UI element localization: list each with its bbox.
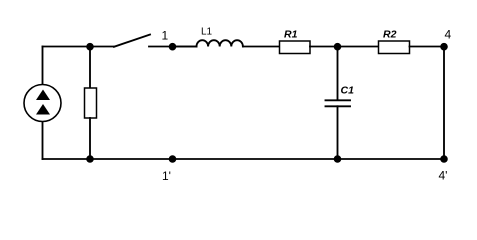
wire top rail left segment xyxy=(43,46,115,48)
svg-text:R2: R2 xyxy=(383,29,397,41)
wire inductor to R1 xyxy=(243,46,280,48)
wire R1 to node C xyxy=(310,46,379,48)
svg-text:C1: C1 xyxy=(341,85,355,97)
resistor R (vertical) body xyxy=(85,88,97,118)
wire R2 to node 4 xyxy=(410,46,445,48)
resistor R1 body xyxy=(280,41,311,54)
wire switch to node 1 xyxy=(149,46,197,48)
junction dot node C (R1/R2/C1) xyxy=(334,43,342,51)
wire node 4 down to node 4' xyxy=(443,47,445,160)
node 4 junction dot xyxy=(440,43,448,51)
current source J circle xyxy=(24,85,61,122)
switch S1 blade (open) xyxy=(114,35,150,47)
svg-text:4': 4' xyxy=(439,169,448,183)
wire capacitor to bottom rail xyxy=(337,106,339,159)
node 1' junction dot xyxy=(169,155,177,163)
capacitor C1 bottom plate xyxy=(326,105,351,107)
wire junction down to resistor R xyxy=(89,47,91,89)
wire left vertical lower xyxy=(42,122,44,160)
current source arrow lower xyxy=(36,104,50,115)
junction dot bottom capacitor xyxy=(334,155,342,163)
node 4' junction dot xyxy=(440,155,448,163)
node 1 junction dot xyxy=(169,43,177,51)
junction dot top left xyxy=(86,43,94,51)
capacitor C1 top plate xyxy=(326,99,351,101)
wire node 1 to inductor xyxy=(173,46,197,48)
wire resistor R to bottom rail xyxy=(89,118,91,159)
wire left vertical upper xyxy=(42,47,44,85)
inductor L1 xyxy=(197,40,243,46)
wire bottom rail xyxy=(43,158,445,160)
svg-text:1': 1' xyxy=(162,169,171,183)
svg-text:1: 1 xyxy=(162,29,169,43)
wire node C down to capacitor xyxy=(337,47,339,101)
junction dot bottom resistor xyxy=(86,155,94,163)
svg-text:4: 4 xyxy=(445,28,452,42)
current source arrow upper xyxy=(36,90,50,101)
resistor R2 body xyxy=(379,41,410,54)
svg-text:L1: L1 xyxy=(201,27,213,38)
svg-text:R1: R1 xyxy=(284,29,298,41)
